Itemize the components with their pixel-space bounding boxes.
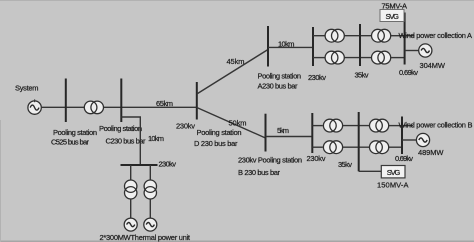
wire 45km line [197,50,268,95]
transformer TB3 [370,119,389,132]
wire A bottom row right [391,57,405,59]
source thermal generator 2 [144,218,157,231]
svg-text:75MV-A: 75MV-A [382,1,408,10]
wire B top row mid [343,125,370,127]
source G0 system generator [28,99,41,114]
wire A top row left [313,35,325,37]
bus D station [196,82,198,120]
svg-text:230kv Pooling station: 230kv Pooling station [238,156,302,165]
svg-text:2*300MWThermal power unit: 2*300MWThermal power unit [100,233,191,242]
svg-text:Pooling station: Pooling station [258,72,302,81]
transformer TA2 [325,51,344,64]
svg-text:0.69kv: 0.69kv [399,68,418,77]
wire A top row right [391,35,405,37]
SVG box A [380,10,404,22]
svg-text:10km: 10km [278,39,295,48]
source wind generator B [416,133,429,146]
svg-text:Pooling station: Pooling station [197,128,242,137]
svg-text:150MV-A: 150MV-A [377,180,409,189]
source wind generator A [419,44,432,57]
bus A 0.69kv [404,13,406,65]
wire A top row mid [344,35,372,37]
svg-text:35kv: 35kv [338,160,352,169]
wire A bottom row left [313,57,325,59]
svg-text:SVG: SVG [387,168,401,177]
bus B 230kv [311,113,313,153]
transformer TA4 [372,51,391,64]
transformer TA1 [325,29,344,42]
wire B collection stub [402,125,413,127]
wire A generator lead [405,50,419,52]
svg-text:65km: 65km [156,99,173,108]
wire B bottom row right [389,146,402,148]
bus B 35kv [358,112,360,171]
svg-text:Pooling station: Pooling station [53,128,97,137]
svg-text:SVG: SVG [386,12,400,21]
bus thermal 230kv [121,164,158,166]
wire thermal gen left lead [130,199,132,218]
wire A collection stub [405,35,415,37]
bus B junction [265,114,267,152]
svg-text:50km: 50km [229,118,247,127]
wire thermal branch stub [121,117,140,165]
svg-text:A230 bus bar: A230 bus bar [258,81,299,90]
transformer TA3 [372,29,391,42]
bus A junction [267,26,269,67]
wire 50km line [197,108,266,139]
wire B top row right [389,125,402,127]
wire B SVG lead [359,170,382,172]
svg-text:230kv: 230kv [307,154,326,163]
wire B bottom row left [312,146,323,148]
transformer TB4 [370,141,389,154]
svg-text:Pooling station: Pooling station [99,124,142,133]
svg-text:10km: 10km [148,134,164,143]
wire 5km line [266,136,313,138]
wire thermal drop left [130,165,132,181]
source thermal generator 1 [124,218,137,231]
wire B top row left [312,125,323,127]
bus C525 [65,79,67,123]
bus C230 [120,79,122,123]
svg-text:5km: 5km [277,126,289,135]
SVG box B [381,166,405,178]
svg-text:C525 bus bar: C525 bus bar [51,138,90,147]
svg-text:304MW: 304MW [420,61,446,70]
wire thermal drop right [149,165,151,181]
bus B 0.69kv [401,117,403,155]
bus A 230kv [312,27,314,66]
svg-text:B 230 bus bar: B 230 bus bar [238,168,281,177]
transformer T1 [84,101,103,114]
bus A 35kv [359,24,361,66]
wire B generator lead [402,139,417,141]
svg-text:D 230 bus bar: D 230 bus bar [194,139,238,148]
transformer TB1 [323,119,342,132]
wire 10km line (A) [268,46,313,48]
wire main 65km line [41,106,197,108]
svg-text:0.69kv: 0.69kv [395,154,413,163]
svg-text:45km: 45km [227,57,245,66]
svg-text:35kv: 35kv [355,70,369,79]
wire B bottom row mid [343,146,370,148]
svg-text:230kv: 230kv [159,160,177,169]
transformer TB2 [323,141,342,154]
transformer thermal T3 [144,180,156,199]
transformer thermal T2 [125,180,137,199]
svg-text:489MW: 489MW [418,148,444,157]
svg-text:230kv: 230kv [308,73,326,82]
svg-text:230kv: 230kv [176,122,195,131]
wire A bottom row mid [344,57,372,59]
svg-text:Wind power collection A: Wind power collection A [399,31,473,40]
wire thermal gen right lead [149,199,151,218]
svg-text:Wind power collection B: Wind power collection B [399,120,473,129]
svg-text:System: System [15,83,39,92]
